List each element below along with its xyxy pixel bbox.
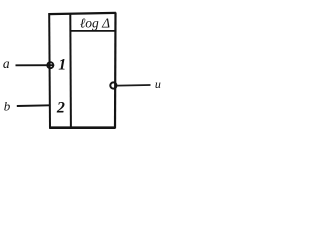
wire output u bbox=[117, 84, 150, 87]
svg-text:2: 2 bbox=[56, 99, 65, 116]
inversion bubble at output bbox=[110, 82, 116, 88]
log element U1 box top edge bbox=[48, 13, 116, 14]
log element U1 box left edge bbox=[48, 13, 51, 128]
wire input a bbox=[16, 64, 55, 66]
svg-text:1: 1 bbox=[58, 57, 66, 74]
log element U1 box right edge bbox=[114, 13, 117, 129]
internal divider line bbox=[69, 14, 72, 128]
log element U1 box bottom edge bbox=[49, 126, 115, 129]
svg-text:u: u bbox=[155, 77, 161, 91]
svg-text:b: b bbox=[4, 99, 11, 114]
wire input b bbox=[17, 104, 50, 107]
header separator line bbox=[70, 30, 115, 32]
inversion bubble at input pin 1 bbox=[47, 62, 53, 68]
svg-text:a: a bbox=[3, 56, 10, 71]
svg-text:ℓog Δ: ℓog Δ bbox=[80, 16, 110, 31]
